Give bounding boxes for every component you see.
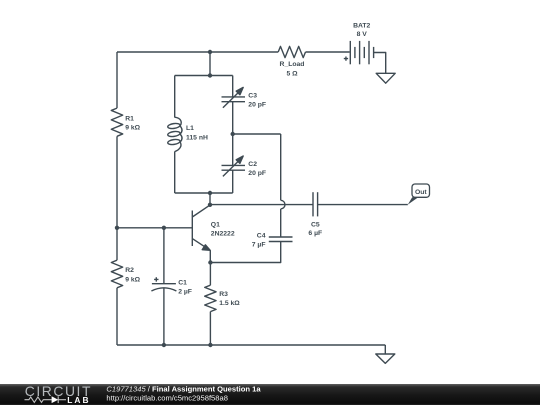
capacitor C4 — [269, 237, 293, 242]
node dot base C1 — [162, 226, 166, 230]
wire left rail middle — [116, 136, 118, 260]
capacitor C1 — [151, 277, 176, 291]
svg-text:C4: C4 — [257, 232, 266, 239]
wire stub top to tank — [209, 52, 211, 76]
wire tank left upper — [174, 76, 176, 118]
label R1 — [125, 115, 140, 131]
wire tank box top — [175, 75, 233, 77]
label C5 — [308, 221, 322, 237]
label C2 — [248, 161, 266, 177]
svg-text:LAB: LAB — [67, 395, 91, 405]
footer bar — [0, 384, 540, 405]
wire emitter to R3 — [209, 263, 211, 286]
capacitor C3 — [222, 87, 246, 107]
wire tank box bottom — [175, 192, 233, 194]
svg-text:BAT2: BAT2 — [353, 23, 370, 30]
svg-text:2N2222: 2N2222 — [211, 231, 235, 238]
svg-text:1.5 kΩ: 1.5 kΩ — [219, 300, 240, 307]
wire tank right lower — [232, 170, 234, 193]
wire base — [117, 227, 192, 229]
wire C5 to out — [318, 204, 408, 206]
node dot top wire — [208, 50, 212, 54]
wire battery to ground — [374, 53, 386, 74]
node dot rail C1 — [162, 343, 166, 347]
svg-text:C5: C5 — [311, 221, 320, 228]
node Out flag — [408, 184, 430, 205]
svg-text:Q1: Q1 — [211, 221, 220, 228]
wire hop over collector wire — [281, 200, 285, 209]
label R_Load — [280, 61, 305, 77]
ground (battery) — [376, 73, 395, 83]
wire C1 top — [163, 228, 165, 284]
wire tank right upper — [232, 76, 234, 97]
label C4 — [252, 232, 266, 248]
footer title text — [106, 384, 261, 402]
label L1 — [186, 125, 208, 141]
svg-text:C2: C2 — [248, 161, 257, 168]
svg-text:Out: Out — [415, 189, 427, 196]
wire left rail lower — [116, 288, 118, 345]
wire tank right middle — [232, 102, 234, 166]
wire C4 bottom to emitter node — [210, 242, 280, 263]
svg-text:7 µF: 7 µF — [252, 242, 266, 249]
node dot emitter — [208, 260, 212, 264]
svg-text:R3: R3 — [219, 291, 228, 298]
svg-text:20 pF: 20 pF — [248, 102, 266, 109]
svg-text:9 kΩ: 9 kΩ — [125, 276, 140, 283]
node dot base left — [115, 226, 119, 230]
svg-text:8 V: 8 V — [357, 31, 368, 38]
label C3 — [248, 92, 266, 108]
wire R3 to bottom rail — [209, 312, 211, 345]
inductor L1 — [167, 117, 182, 151]
ground (bottom) — [376, 354, 395, 363]
battery BAT2 — [344, 41, 374, 64]
svg-text:2 µF: 2 µF — [178, 289, 192, 296]
logo CIRCUIT LAB — [25, 383, 92, 405]
svg-text:R1: R1 — [125, 115, 134, 122]
wire stub tank bottom to collector node — [209, 193, 211, 205]
resistor R1 — [111, 108, 122, 136]
svg-text:20 pF: 20 pF — [248, 170, 266, 177]
wire tank mid to vertical — [233, 133, 281, 135]
wire tank left lower — [174, 152, 176, 194]
svg-text:http://circuitlab.com/c5mc2958: http://circuitlab.com/c5mc2958f58a8 — [106, 394, 228, 403]
wire vertical lower (hop to C4) — [280, 209, 282, 237]
svg-text:9 kΩ: 9 kΩ — [125, 125, 140, 132]
node dot collector — [208, 203, 212, 207]
wire collector horizontal — [210, 204, 313, 206]
resistor R3 — [205, 285, 216, 311]
wire C1 bottom — [163, 288, 165, 345]
svg-text:C19771345 / Final Assignment Q: C19771345 / Final Assignment Question 1a — [106, 384, 261, 393]
svg-text:6 µF: 6 µF — [308, 230, 322, 237]
label Q1 — [211, 221, 235, 237]
wire vertical upper (to hop) — [280, 134, 282, 200]
transistor Q1 — [192, 205, 210, 263]
node dot tank mid — [231, 132, 235, 136]
label R3 — [219, 291, 240, 307]
resistor R_Load — [278, 46, 305, 57]
svg-text:R2: R2 — [125, 267, 134, 274]
resistor R2 — [111, 260, 122, 288]
wire top left horizontal — [117, 51, 278, 53]
svg-text:R_Load: R_Load — [280, 61, 305, 68]
capacitor C2 — [222, 156, 246, 176]
svg-text:L1: L1 — [186, 125, 194, 132]
label BAT2 — [353, 23, 370, 39]
svg-text:115 nH: 115 nH — [186, 134, 208, 141]
svg-text:C3: C3 — [248, 92, 257, 99]
wire top right horizontal — [306, 51, 350, 53]
node dot rail R3 — [208, 343, 212, 347]
label R2 — [125, 267, 140, 283]
svg-text:C1: C1 — [178, 279, 187, 286]
svg-text:5 Ω: 5 Ω — [286, 70, 298, 77]
label C1 — [178, 279, 192, 295]
wire left rail upper — [116, 52, 118, 108]
wire bottom rail — [117, 344, 385, 346]
capacitor C5 — [313, 192, 318, 216]
node dot tank top — [208, 73, 212, 77]
wire ground drop — [384, 345, 386, 354]
node dot tank bottom — [208, 191, 212, 195]
